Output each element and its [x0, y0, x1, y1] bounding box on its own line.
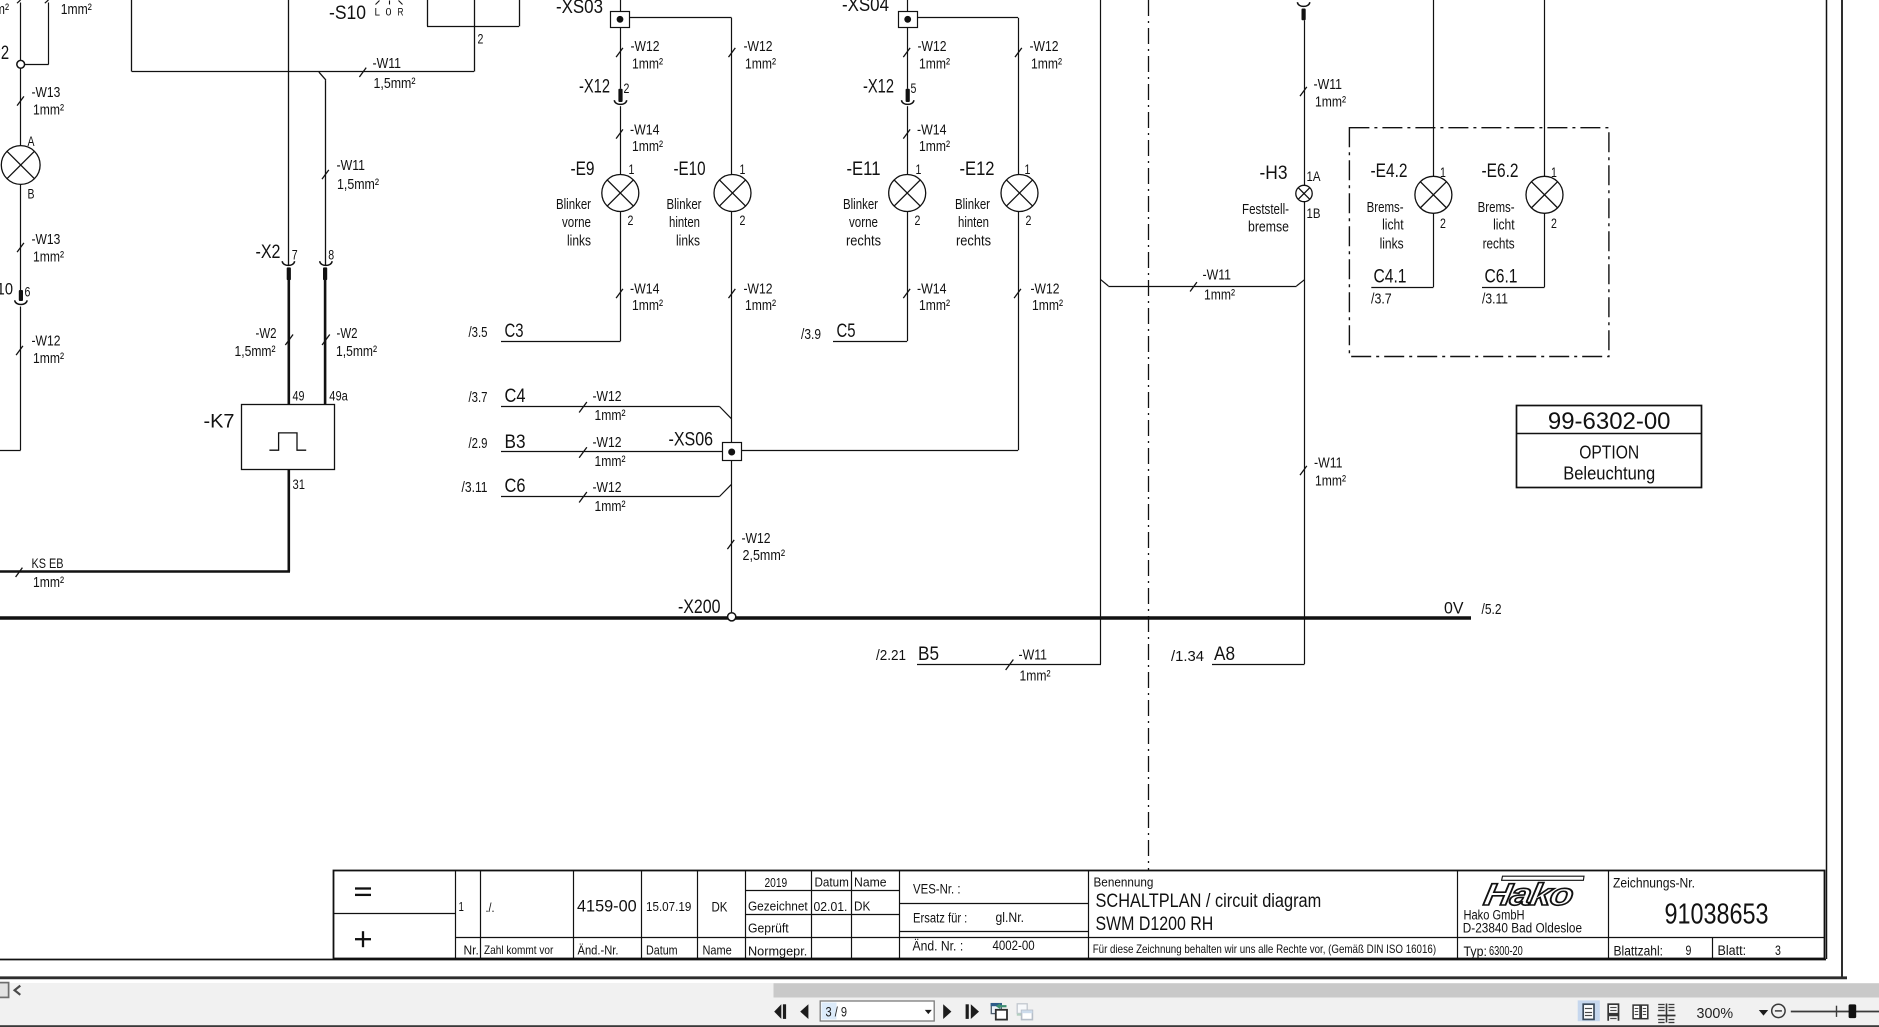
zoom slider: [1791, 1004, 1879, 1018]
svg-text:1mm²: 1mm²: [595, 498, 626, 515]
title block VES section: [913, 882, 1035, 954]
svg-text:5: 5: [911, 81, 917, 96]
svg-text:links: links: [567, 233, 591, 250]
svg-text:1mm²: 1mm²: [595, 453, 626, 470]
connector -X10 pin 6 (cut at edge): [0, 280, 30, 300]
lamp E11: [889, 175, 926, 212]
svg-text:/2.9: /2.9: [469, 435, 488, 452]
view mode two pages: [1633, 1005, 1648, 1019]
svg-text:Blinker: Blinker: [843, 196, 878, 213]
svg-text:-W11: -W11: [373, 55, 402, 72]
reference B3 /2.9: [469, 432, 723, 453]
svg-text:./.: ./.: [486, 901, 495, 915]
svg-text:-W12: -W12: [1030, 38, 1059, 55]
title block grid lines: [334, 871, 1825, 959]
svg-text:C4.1: C4.1: [1374, 267, 1407, 288]
svg-text:Blattzahl:: Blattzahl:: [1614, 944, 1664, 959]
svg-text:VES-Nr. :: VES-Nr. :: [913, 882, 961, 897]
svg-text:2: 2: [915, 213, 921, 228]
svg-text:-P2: -P2: [0, 43, 9, 64]
svg-text:1A: 1A: [1307, 169, 1321, 184]
previous view icon: [991, 1003, 1007, 1020]
svg-text:Änd.-Nr.: Änd.-Nr.: [578, 943, 619, 958]
svg-text:Name: Name: [854, 875, 887, 890]
svg-text:1,5mm²: 1,5mm²: [336, 343, 377, 360]
svg-text:02.01.: 02.01.: [814, 899, 848, 914]
svg-text:1mm²: 1mm²: [919, 297, 950, 314]
svg-text:-XS06: -XS06: [669, 430, 714, 451]
label Feststellbremse: [1242, 201, 1289, 236]
wire label -W14 1mm2 E11: [903, 122, 950, 156]
svg-text:-E6.2: -E6.2: [1482, 161, 1519, 182]
svg-text:-W12: -W12: [742, 530, 771, 547]
wire E6.2 top: [1544, 0, 1546, 176]
svg-text:1,5mm²: 1,5mm²: [337, 176, 379, 193]
svg-text:-X200: -X200: [678, 597, 721, 618]
page number box 3 / 9: [820, 1001, 934, 1021]
svg-text:1,5mm²: 1,5mm²: [235, 343, 276, 360]
reference B5 /2.21: [876, 644, 1101, 665]
wire X10 down and left exit: [0, 307, 21, 451]
wire E12 lamp down to B3 line: [1018, 212, 1020, 451]
connector X10 tick and cup: [15, 290, 27, 305]
wire E11 lamp to C5: [907, 212, 909, 342]
viewer toolbar background: [0, 983, 1879, 1027]
wire XS03 stub up: [620, 0, 622, 11]
svg-text:-H3: -H3: [1260, 163, 1288, 184]
svg-text:Datum: Datum: [646, 943, 678, 958]
svg-text:/1.34: /1.34: [1171, 648, 1204, 665]
svg-text:hinten: hinten: [958, 214, 989, 231]
section separator dash-dot line: [1148, 0, 1150, 870]
title block Typ row: [1464, 943, 1523, 959]
S10 auxiliary box pin 2: [427, 0, 520, 27]
title block Benennung section: [1093, 875, 1436, 956]
connector XS03 box with dot: [611, 12, 630, 28]
svg-text:hinten: hinten: [669, 214, 700, 231]
svg-text:C6: C6: [505, 476, 526, 497]
svg-text:Für diese Zeichnung behalten w: Für diese Zeichnung behalten wir uns all…: [1093, 942, 1436, 956]
wire label -W12 2,5mm2: [727, 530, 785, 564]
svg-text:rechts: rechts: [846, 233, 881, 250]
svg-text:DK: DK: [854, 899, 871, 914]
wire E9 lamp to C3: [620, 212, 622, 342]
svg-text:-X10: -X10: [0, 280, 13, 299]
svg-text:Gezeichnet: Gezeichnet: [748, 899, 808, 914]
svg-text:1mm²: 1mm²: [1315, 473, 1346, 490]
svg-text:/3.5: /3.5: [469, 324, 488, 341]
svg-text:Blatt:: Blatt:: [1718, 943, 1747, 958]
svg-text:31: 31: [293, 477, 306, 492]
svg-text:1mm²: 1mm²: [632, 56, 663, 73]
label Blinker hinten links: [667, 196, 702, 250]
svg-text:2: 2: [740, 213, 746, 228]
svg-text:1mm²: 1mm²: [919, 138, 950, 155]
wire S10 to X2 pin 7: [288, 0, 290, 265]
svg-text:KS EB: KS EB: [32, 556, 64, 571]
svg-text:1mm²: 1mm²: [33, 102, 64, 119]
svg-text:Feststell-: Feststell-: [1242, 201, 1289, 218]
svg-text:1mm²: 1mm²: [595, 407, 626, 424]
svg-text:bremse: bremse: [1248, 219, 1289, 236]
lamp E10: [714, 175, 751, 212]
nav first page button: [774, 1004, 786, 1019]
svg-text:1mm²: 1mm²: [1031, 56, 1062, 73]
scrollbar thumb: [774, 983, 1879, 997]
svg-text:1mm²: 1mm²: [632, 138, 663, 155]
svg-text:1mm²: 1mm²: [632, 297, 663, 314]
svg-text:gl.Nr.: gl.Nr.: [996, 910, 1025, 925]
wire label -W11 1mm2 A8 wire: [1300, 455, 1346, 490]
wire label -W11 1mm2 H3 top: [1300, 76, 1346, 111]
svg-text:1mm²: 1mm²: [1020, 668, 1051, 685]
svg-text:-W12: -W12: [593, 479, 622, 496]
svg-text:-W14: -W14: [630, 122, 660, 139]
wire KS EB thick: [0, 570, 290, 573]
wire E9 branch upper: [620, 27, 622, 89]
svg-text:-W11: -W11: [1019, 647, 1048, 664]
wire E11 branch upper: [907, 27, 909, 89]
svg-text:300%: 300%: [1697, 1006, 1734, 1022]
svg-text:2: 2: [624, 81, 630, 96]
wire XS06 down to X200: [731, 461, 733, 613]
svg-text:licht: licht: [1382, 217, 1404, 234]
svg-text:1mm²: 1mm²: [1315, 94, 1346, 111]
svg-text:-W11: -W11: [1203, 267, 1232, 284]
reference C6 /3.11: [462, 476, 732, 497]
reference C4.1 /3.7: [1371, 267, 1433, 308]
svg-text:-W12: -W12: [744, 38, 773, 55]
wire label -W12 1mm2 C4 line: [579, 388, 625, 424]
wire label -W11 1,5mm2 vertical: [322, 157, 379, 193]
wire node P2 to lamp: [20, 68, 22, 146]
label Bremslicht rechts: [1478, 199, 1516, 253]
svg-text:-XS03: -XS03: [556, 0, 603, 18]
svg-text:Brems-: Brems-: [1367, 199, 1404, 216]
svg-text:6: 6: [25, 285, 31, 300]
reference A8 /1.34: [1171, 644, 1305, 665]
wire label -W12 1mm2 left column: [16, 333, 64, 368]
svg-text:SCHALTPLAN / circuit diagram: SCHALTPLAN / circuit diagram: [1096, 891, 1322, 912]
lamp H3: [1296, 185, 1312, 201]
svg-text:0V: 0V: [1444, 600, 1464, 618]
title block plus symbol: [355, 931, 371, 947]
reference C4 /3.7: [469, 386, 732, 419]
svg-text:Blinker: Blinker: [556, 196, 591, 213]
svg-text:-W2: -W2: [337, 325, 358, 342]
svg-text:SWM D1200 RH: SWM D1200 RH: [1096, 914, 1214, 935]
wire label -W14 1mm2 E9 bottom: [616, 281, 663, 315]
title block revision row texts: [459, 898, 732, 958]
svg-text:-XS04: -XS04: [842, 0, 889, 16]
svg-text:91038653: 91038653: [1664, 899, 1768, 931]
switch S10 box: [132, 0, 475, 72]
toolbar bottom edge: [0, 1025, 1879, 1027]
svg-text:49a: 49a: [329, 389, 348, 404]
svg-text:-X12: -X12: [579, 77, 610, 98]
svg-text:R: R: [398, 7, 404, 19]
wire label -W11 1,5mm2 horizontal: [359, 55, 415, 92]
svg-text:15.07.19: 15.07.19: [646, 899, 691, 914]
svg-text:C3: C3: [505, 321, 524, 342]
wire label -W14 1mm2 E11 bottom: [903, 281, 950, 315]
wire H3 connector to lamp: [1304, 20, 1306, 185]
wire label -W12 1mm2 B3 line: [579, 434, 625, 470]
connector XS04 box with dot: [899, 12, 918, 28]
svg-text:Typ:: Typ:: [1464, 944, 1487, 959]
svg-text:B5: B5: [918, 644, 939, 665]
lamp E12: [1001, 175, 1038, 212]
wire X12 to lamp E9: [620, 106, 622, 174]
svg-text:99-6302-00: 99-6302-00: [1548, 408, 1671, 435]
svg-text:-W14: -W14: [917, 281, 947, 298]
wire W2 thick left to K7: [287, 279, 290, 405]
reference C3 /3.5: [469, 321, 621, 342]
svg-text:1mm²: 1mm²: [33, 574, 64, 591]
wire label KS EB 1mm2: [16, 556, 64, 591]
wire E10 lamp down to XS06: [731, 212, 733, 443]
svg-text:B: B: [28, 187, 35, 202]
svg-text:1: 1: [740, 162, 746, 177]
svg-text:-W12: -W12: [744, 281, 773, 298]
wire B3 line right of XS06 to E12 branch: [742, 450, 1018, 452]
svg-text:1: 1: [629, 162, 635, 177]
wire K7 pin 31 down: [287, 470, 290, 572]
svg-text:rechts: rechts: [956, 233, 991, 250]
svg-text:licht: licht: [1493, 217, 1515, 234]
svg-text:1mm²: 1mm²: [919, 56, 950, 73]
svg-text:4159-00: 4159-00: [577, 898, 637, 916]
svg-text:-W11: -W11: [1314, 76, 1343, 93]
svg-text:2: 2: [1551, 216, 1557, 231]
svg-text:Datum: Datum: [815, 875, 849, 890]
wire label -W2 1,5mm2 right: [322, 325, 377, 360]
view mode single page selected: [1578, 1000, 1600, 1021]
svg-text:-W12: -W12: [918, 38, 947, 55]
svg-text:1mm²: 1mm²: [1032, 297, 1063, 314]
label Hako GmbH address: [1463, 908, 1582, 936]
svg-text:1B: 1B: [1307, 206, 1321, 221]
connector X12 pin 2 tick and cup: [614, 89, 626, 105]
svg-text:-E11: -E11: [847, 159, 881, 180]
nav previous page button: [800, 1004, 808, 1019]
svg-text:2,5mm²: 2,5mm²: [743, 547, 786, 564]
svg-text:1mm²: 1mm²: [745, 56, 776, 73]
svg-text:Brems-: Brems-: [1478, 199, 1515, 216]
svg-text:-W12: -W12: [593, 434, 622, 451]
connector H3 top cup and tick: [1297, 2, 1309, 20]
svg-text:C4: C4: [505, 386, 526, 407]
view mode continuous: [1608, 1004, 1618, 1021]
wire W11 horizontal link: [1101, 280, 1305, 287]
wire label -W12 1mm2 C6 line: [579, 479, 625, 515]
svg-text:B3: B3: [505, 432, 526, 453]
svg-text:/3.11: /3.11: [1482, 291, 1508, 308]
svg-text:links: links: [676, 233, 700, 250]
svg-text:vorne: vorne: [849, 214, 878, 231]
lamp E9: [602, 175, 639, 212]
wire label -W13 1mm2 upper: [17, 84, 64, 119]
svg-text:4002-00: 4002-00: [993, 938, 1035, 953]
svg-text:C6.1: C6.1: [1485, 267, 1518, 288]
lamp -P2 (A/B): [1, 146, 40, 185]
label box 99-6302-00 OPTION Beleuchtung: [1517, 406, 1702, 488]
svg-text:Geprüft: Geprüft: [748, 921, 789, 936]
svg-text:1mm²: 1mm²: [33, 350, 64, 367]
wire E4.2 top: [1433, 0, 1435, 176]
svg-text:Blinker: Blinker: [955, 196, 990, 213]
svg-text:L: L: [375, 7, 381, 19]
svg-text:-W13: -W13: [32, 231, 61, 248]
wire XS04 stub up: [907, 0, 909, 11]
svg-text:-W12: -W12: [593, 388, 622, 405]
svg-text:Ersatz für :: Ersatz für :: [913, 911, 967, 926]
svg-text:C5: C5: [837, 321, 856, 342]
wire label -W12 1mm2 E12 bottom: [1014, 281, 1063, 315]
svg-text:2: 2: [1026, 213, 1032, 228]
label Blattzahl 9: [1614, 943, 1692, 958]
svg-text:3 / 9: 3 / 9: [826, 1004, 848, 1019]
svg-text:/3.7: /3.7: [469, 389, 488, 406]
svg-text:Änd. Nr. :: Änd. Nr. :: [913, 939, 964, 954]
title block date name section: [748, 875, 887, 959]
next view icon greyed: [1017, 1004, 1033, 1020]
svg-text:-W14: -W14: [630, 281, 660, 298]
wire label -W12 1mm2 E10 top: [728, 38, 776, 73]
svg-text:D-23840 Bad Oldesloe: D-23840 Bad Oldesloe: [1463, 920, 1582, 935]
sidebar toggle icon: [0, 983, 20, 998]
connector X2 pin 8 cup and tick: [320, 261, 332, 280]
relay K7 pulse symbol: [269, 433, 306, 450]
nav last page button: [966, 1004, 979, 1019]
svg-text:-S10: -S10: [329, 3, 366, 24]
svg-text:/3.11: /3.11: [462, 479, 488, 496]
svg-text:6300-20: 6300-20: [1489, 943, 1523, 958]
svg-text:2019: 2019: [765, 875, 788, 890]
wire XS03 to E10 branch: [630, 18, 732, 175]
svg-text:2: 2: [628, 213, 634, 228]
svg-text:-W12: -W12: [1031, 281, 1060, 298]
node X200: [728, 613, 736, 621]
svg-text:Name: Name: [703, 943, 732, 958]
label Blinker hinten rechts: [955, 196, 991, 250]
node P2: [17, 60, 25, 68]
connector XS06 box with dot: [723, 443, 742, 461]
svg-text:OPTION: OPTION: [1579, 443, 1639, 463]
title block equals symbol: [355, 889, 371, 895]
wire W2 thick right to K7: [324, 279, 327, 405]
svg-text:DK: DK: [712, 900, 728, 915]
svg-text:links: links: [1380, 236, 1404, 253]
svg-text:1: 1: [916, 162, 922, 177]
wire label -W13 1mm2 lower: [17, 231, 64, 266]
svg-text:-X2: -X2: [256, 242, 281, 263]
svg-text:-X12: -X12: [863, 77, 894, 98]
wire W11 horizontal under S10: [132, 71, 474, 73]
connector X12 pin 5 tick and cup: [902, 89, 914, 105]
svg-text:-E12: -E12: [960, 159, 995, 180]
svg-text:Blinker: Blinker: [667, 196, 702, 213]
wire label -W12 1mm2 E10 bottom: [728, 281, 776, 315]
svg-text:-E9: -E9: [571, 159, 595, 180]
svg-text:Benennung: Benennung: [1094, 875, 1154, 890]
wire from P2 node up-left vertical: [17, 0, 21, 60]
wire X12 to lamp E11: [907, 106, 909, 174]
svg-text:-W12: -W12: [32, 333, 61, 350]
wire label -W11 1mm2 B5 line: [1006, 647, 1051, 685]
svg-text:1mm²: 1mm²: [1204, 287, 1235, 304]
wire loop right branch to node: [25, 0, 49, 65]
svg-text:1mm²: 1mm²: [745, 297, 776, 314]
svg-text:-W11: -W11: [337, 157, 366, 174]
wire W11 vertical to B5: [1100, 0, 1102, 664]
svg-text:7: 7: [292, 247, 298, 262]
view mode two pages continuous: [1658, 1004, 1676, 1023]
svg-text:49: 49: [293, 389, 305, 404]
wire label -W12 1mm2 E9 top: [616, 38, 663, 73]
wire label -W11 1mm2 horizontal link: [1190, 267, 1235, 304]
label Blatt 3: [1718, 943, 1781, 958]
wire label -W2 1,5mm2 left: [235, 325, 294, 360]
reference C5 /3.9: [801, 321, 907, 343]
svg-text:Normgepr.: Normgepr.: [748, 944, 807, 959]
wire label -W12 1mm2 E11 top: [903, 38, 950, 73]
wire XS04 to E12 branch: [917, 18, 1018, 175]
svg-text:1: 1: [1025, 162, 1031, 177]
svg-text:-E10: -E10: [674, 159, 706, 180]
svg-text:9: 9: [1686, 943, 1692, 958]
svg-text:Beleuchtung: Beleuchtung: [1563, 464, 1655, 484]
label Blinker vorne links: [556, 196, 591, 250]
svg-text:-W12: -W12: [631, 38, 660, 55]
title block outline: [334, 871, 1825, 959]
wire S10 bottom to X2 pin 8: [319, 72, 326, 265]
svg-text:-W13: -W13: [32, 84, 61, 101]
svg-text:-W14: -W14: [917, 122, 947, 139]
svg-text:1,5mm²: 1,5mm²: [374, 75, 416, 92]
svg-text:Nr.: Nr.: [464, 944, 479, 958]
wire lamp to connector X10: [20, 185, 22, 291]
Hako logo: [1481, 876, 1584, 912]
svg-text:rechts: rechts: [1483, 236, 1515, 253]
svg-text:/3.7: /3.7: [1371, 291, 1392, 308]
svg-text:-K7: -K7: [204, 412, 235, 433]
svg-text:3: 3: [1775, 943, 1781, 958]
nav next page button: [943, 1004, 951, 1019]
svg-text:/3.9: /3.9: [801, 326, 821, 343]
svg-text:2: 2: [1440, 216, 1446, 231]
svg-text:vorne: vorne: [562, 214, 591, 231]
wire label -W12 1mm2 E12 top: [1015, 38, 1062, 73]
wire H3 lamp down to A8: [1304, 202, 1306, 664]
svg-text:-W2: -W2: [256, 325, 277, 342]
relay K7 box: [242, 405, 335, 470]
option area dashed box: [1349, 128, 1609, 357]
zoom out button: [1772, 1004, 1785, 1017]
svg-text:Zahl kommt vor: Zahl kommt vor: [484, 943, 553, 957]
svg-text:A8: A8: [1214, 644, 1235, 665]
svg-text:0: 0: [386, 7, 392, 19]
svg-text:1mm²: 1mm²: [61, 1, 92, 18]
reference C6.1 /3.11: [1482, 267, 1545, 308]
zoom dropdown arrow: [1759, 1010, 1768, 1016]
connector X2 pin 7 cup and tick: [282, 261, 294, 280]
svg-text:-W11: -W11: [1314, 455, 1343, 472]
label Blinker vorne rechts: [843, 196, 881, 250]
bus 0V X200: [0, 616, 1471, 619]
svg-text:-E4.2: -E4.2: [1371, 161, 1408, 182]
lamp E4.2: [1415, 176, 1452, 213]
